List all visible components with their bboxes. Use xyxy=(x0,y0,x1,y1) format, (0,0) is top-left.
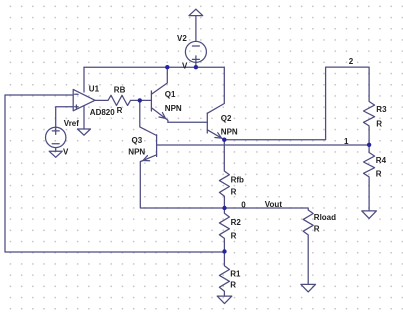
svg-text:0: 0 xyxy=(241,200,246,209)
svg-text:Rload: Rload xyxy=(314,213,336,222)
svg-text:NPN: NPN xyxy=(221,127,238,136)
svg-text:R: R xyxy=(117,106,123,115)
svg-text:V2: V2 xyxy=(177,34,187,43)
svg-text:V: V xyxy=(182,62,188,71)
svg-text:1: 1 xyxy=(344,137,349,146)
svg-text:Q2: Q2 xyxy=(221,114,232,123)
svg-text:AD820: AD820 xyxy=(90,108,115,117)
svg-text:U1: U1 xyxy=(89,84,100,93)
svg-text:R4: R4 xyxy=(376,156,387,165)
svg-text:R: R xyxy=(376,169,382,178)
svg-text:2: 2 xyxy=(349,57,354,66)
svg-text:Vref: Vref xyxy=(64,119,79,128)
svg-text:V: V xyxy=(63,147,69,156)
svg-text:R2: R2 xyxy=(231,218,242,227)
svg-text:R: R xyxy=(231,188,237,197)
svg-text:RB: RB xyxy=(114,86,126,95)
svg-text:NPN: NPN xyxy=(128,147,145,156)
svg-text:NPN: NPN xyxy=(165,104,182,113)
svg-text:R: R xyxy=(314,224,320,233)
svg-text:Q1: Q1 xyxy=(165,90,176,99)
svg-text:R: R xyxy=(376,120,382,129)
svg-text:R3: R3 xyxy=(376,105,387,114)
svg-text:R: R xyxy=(230,281,236,290)
svg-text:Rfb: Rfb xyxy=(231,175,244,184)
svg-text:Q3: Q3 xyxy=(132,136,143,145)
svg-text:R1: R1 xyxy=(230,270,241,279)
svg-text:R: R xyxy=(231,231,237,240)
svg-text:Vout: Vout xyxy=(265,200,283,209)
